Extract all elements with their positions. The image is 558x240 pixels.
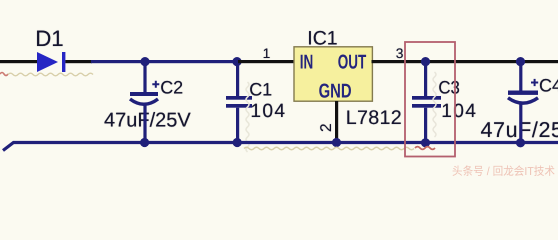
error squiggle (red, left edge): [0, 73, 8, 76]
svg-text:3: 3: [396, 46, 404, 61]
svg-text:头条号 / 回龙会IT技术: 头条号 / 回龙会IT技术: [452, 165, 555, 178]
node (junction C1 bottom): [233, 138, 242, 147]
svg-text:IN: IN: [300, 52, 314, 74]
svg-text:C3: C3: [438, 78, 460, 98]
node (junction C3 top): [421, 57, 430, 66]
diode D1: [37, 52, 65, 72]
svg-text:47uF/25V: 47uF/25V: [104, 109, 191, 131]
capacitor C4 (polarized): [508, 79, 538, 103]
wire (C4 bottom lead): [519, 104, 522, 144]
wire (C1 bottom lead): [236, 108, 239, 143]
wire (node C1 to IC pin 1, black): [238, 60, 294, 63]
error squiggle (tan, under bottom rail): [244, 147, 414, 150]
svg-text:C4: C4: [539, 76, 558, 96]
svg-text:C1: C1: [249, 79, 272, 99]
wire (C2 bottom lead): [143, 105, 146, 143]
node (junction C2 bottom): [140, 138, 149, 147]
wire (IC out to right edge, black): [372, 60, 558, 63]
svg-text:C2: C2: [160, 78, 183, 98]
svg-text:GND: GND: [319, 81, 352, 103]
capacitor C1: [226, 96, 252, 108]
wire (navy segment to C1 node): [91, 60, 238, 63]
svg-text:104: 104: [250, 101, 286, 122]
wire (C4 top lead): [519, 62, 522, 91]
IC U1 regulator body: [294, 47, 372, 103]
node (junction GND): [332, 138, 341, 147]
wire (left anode segment, black): [0, 60, 38, 63]
svg-text:104: 104: [441, 101, 477, 122]
wire (C1 top lead): [236, 62, 239, 96]
wire (bottom rail with left bend): [3, 143, 558, 151]
wire (cathode segment, black): [65, 60, 92, 63]
wire (C2 top lead): [143, 62, 146, 92]
capacitor C3: [412, 96, 441, 108]
error squiggle (grey, beside C3): [433, 72, 436, 137]
svg-text:D1: D1: [35, 26, 64, 51]
error squiggle (red, under C3 bottom node): [415, 147, 435, 150]
node (junction C1 top): [232, 57, 241, 66]
node (junction C3 bottom): [421, 138, 430, 147]
wire (C3 top lead): [424, 62, 427, 96]
error squiggle (grey, beside C1): [246, 82, 249, 152]
svg-text:L7812: L7812: [346, 107, 402, 129]
wire (C3 bottom lead): [424, 108, 427, 143]
svg-text:1: 1: [263, 46, 271, 61]
capacitor C2 (polarized): [130, 81, 159, 105]
node (junction C2 top): [140, 57, 149, 66]
node (junction C4 top): [516, 57, 525, 66]
node (junction C4 bottom): [516, 138, 525, 147]
svg-text:2: 2: [318, 123, 335, 132]
svg-text:OUT: OUT: [338, 52, 367, 74]
highlight box around C3: [405, 42, 455, 157]
pin 2 wire (GND down, black): [335, 101, 338, 143]
error squiggle (tan, under diode): [8, 73, 93, 76]
svg-text:IC1: IC1: [307, 27, 337, 49]
